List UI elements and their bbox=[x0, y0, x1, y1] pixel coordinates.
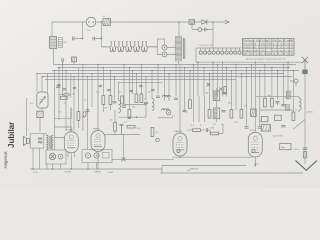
wire v129.4 bbox=[128, 68, 130, 110]
svg-text:1M: 1M bbox=[166, 97, 169, 99]
svg-text:500Ω: 500Ω bbox=[108, 172, 113, 174]
capacitor C1 bbox=[205, 28, 208, 32]
wire top supply line bbox=[52, 21, 226, 23]
wire below transformer bbox=[53, 49, 55, 65]
wire v152 bbox=[151, 71, 153, 99]
wire v82.9 bbox=[82, 65, 84, 132]
wire v42 bbox=[41, 77, 43, 93]
wire sockets to choke bbox=[167, 48, 176, 55]
node Jb bbox=[101, 38, 103, 40]
wire v37 bbox=[36, 74, 38, 93]
wire v132.6 bbox=[132, 71, 134, 95]
IF coil box B2a bbox=[213, 91, 219, 101]
svg-text:EABC80: EABC80 bbox=[175, 130, 184, 133]
resistor R8 bbox=[140, 94, 147, 103]
wire v74 bbox=[73, 77, 75, 132]
wire h94.6 bbox=[58, 94, 71, 96]
resistor R18 bbox=[224, 87, 227, 94]
heater pins 2 bbox=[118, 42, 123, 47]
node Ja bbox=[82, 38, 84, 40]
resistor R24 bbox=[121, 96, 124, 104]
svg-text:Netz: Netz bbox=[281, 146, 285, 149]
node h117a bbox=[129, 116, 131, 118]
pickup mark X bbox=[122, 157, 126, 161]
bus wire 1 bbox=[54, 64, 297, 66]
wire v264.9 bbox=[264, 65, 266, 99]
junction dots bus 4 bbox=[36, 73, 242, 77]
wire v288 bbox=[287, 62, 289, 100]
svg-text:EL95: EL95 bbox=[254, 164, 260, 166]
wire mains left bbox=[51, 22, 53, 36]
wire v158 bbox=[157, 65, 159, 95]
resistor R15 bbox=[268, 95, 274, 107]
junction dots chassis bbox=[32, 159, 124, 170]
wire arrow stem bbox=[304, 158, 306, 164]
wire v124 bbox=[123, 65, 125, 105]
resistor R5 bbox=[104, 96, 112, 110]
svg-text:EBF80: EBF80 bbox=[95, 171, 102, 173]
wire switch row rail bbox=[196, 48, 241, 62]
svg-text:50µF 350V: 50µF 350V bbox=[273, 136, 284, 138]
coil L4 bbox=[299, 97, 301, 112]
resistor R21 bbox=[151, 128, 159, 137]
node T4 bottom bbox=[255, 165, 257, 167]
paper background bbox=[0, 0, 320, 188]
wire v164.4 bbox=[163, 68, 165, 101]
capacitor C18 bbox=[120, 124, 124, 134]
wire v70.8 bbox=[70, 74, 72, 132]
wire can stubs bbox=[216, 88, 218, 122]
capacitor C2 bbox=[62, 58, 63, 64]
node J1 bbox=[178, 21, 180, 23]
wire v255.3 bbox=[254, 62, 256, 132]
svg-text:EBF80: EBF80 bbox=[93, 128, 100, 130]
speaker housing bbox=[30, 134, 44, 148]
capacitor C15 bbox=[93, 37, 94, 41]
fuse Si1 bbox=[103, 16, 111, 26]
wire v198 bbox=[197, 62, 199, 96]
svg-text:Spannungen gegen Chassis gemes: Spannungen gegen Chassis gemessen 20° bbox=[246, 58, 286, 60]
bus wire 6 bbox=[45, 79, 236, 81]
wire v259.8 bbox=[259, 71, 261, 127]
resistor R1 bbox=[189, 20, 195, 25]
heater pins 1 bbox=[110, 42, 115, 47]
bus wire 7 bbox=[118, 81, 162, 83]
resistor R19 bbox=[114, 110, 117, 135]
coil L2 bbox=[119, 101, 121, 113]
capacitor C10 bbox=[245, 127, 249, 128]
svg-text:T P K M L U TA: T P K M L U TA bbox=[198, 44, 213, 47]
wire v141.4 bbox=[140, 65, 142, 95]
svg-text:EL95 170 160 5,4 24 9,5: EL95 170 160 5,4 24 9,5 bbox=[243, 54, 295, 56]
wire v271.9 bbox=[271, 68, 273, 99]
resistor R14 bbox=[264, 98, 267, 107]
capacitor C9 bbox=[183, 110, 187, 111]
resistor R20 bbox=[127, 125, 141, 130]
wire h117.8 left of V3 bbox=[158, 117, 173, 119]
bus wire 2 bbox=[57, 67, 290, 69]
box N3 bbox=[261, 125, 270, 132]
resistor R7 bbox=[135, 94, 138, 103]
lamp La1 bbox=[86, 17, 96, 32]
svg-text:EL95: EL95 bbox=[250, 130, 256, 132]
capacitor C11 bbox=[258, 127, 262, 128]
band filter F1 bbox=[30, 92, 49, 108]
pot box A bbox=[46, 150, 66, 164]
capacitor C3 bbox=[86, 110, 90, 113]
wire v78.4 bbox=[77, 68, 79, 129]
wire v204.5 low bbox=[204, 97, 206, 123]
wire branch lower bbox=[192, 22, 213, 30]
wire h104.5 bbox=[124, 104, 146, 106]
wire v251.4 bbox=[250, 65, 252, 110]
wire v98 bbox=[97, 65, 99, 131]
output transformer Tr2 bbox=[46, 135, 53, 149]
wire h127 bbox=[54, 127, 71, 132]
resistor R10 bbox=[185, 100, 191, 114]
junction dots bus 3 bbox=[54, 70, 294, 71]
svg-text:ECH81: ECH81 bbox=[66, 130, 74, 132]
wire v305 right rail bbox=[304, 74, 306, 158]
wire diagonal to rail bbox=[293, 120, 305, 130]
antenna symbol bbox=[302, 57, 308, 74]
wire v246.5 bbox=[246, 68, 248, 127]
wire v222.5 bbox=[222, 62, 224, 96]
box N1 bbox=[261, 117, 268, 122]
wire v176 bbox=[175, 65, 177, 97]
wire v123.5 low bbox=[123, 135, 125, 160]
wire v193.5 bbox=[193, 65, 195, 97]
socket pin P2 bbox=[162, 52, 167, 57]
wire v193.5 low bbox=[193, 97, 195, 123]
tube V4 EL95 bbox=[248, 132, 262, 165]
junction dots bus 2 bbox=[58, 67, 288, 68]
junction dots bus 1 bbox=[62, 64, 284, 65]
wire v184.5 bbox=[184, 68, 186, 111]
svg-text:170Ω: 170Ω bbox=[33, 172, 38, 174]
wire v62.5 bbox=[62, 65, 64, 97]
heater chain wire bbox=[102, 47, 158, 52]
capacitor C5 bbox=[122, 106, 126, 107]
heater pins 3 bbox=[126, 42, 131, 47]
resistor R11 bbox=[208, 110, 211, 119]
box K1 bbox=[251, 109, 257, 117]
tube V2 EBF80 bbox=[91, 131, 105, 174]
terminal TB1 bbox=[290, 79, 298, 86]
capacitor C4 bbox=[113, 102, 117, 103]
wire v283.4 bbox=[282, 65, 284, 105]
wire antenna left bbox=[26, 98, 28, 136]
wire v190 bbox=[189, 71, 191, 100]
wire chassis bus bbox=[30, 168, 162, 170]
svg-text:ECH81: ECH81 bbox=[65, 171, 73, 173]
choke L1 bbox=[176, 37, 185, 62]
wire drop to coil bbox=[178, 22, 180, 36]
svg-text:6,3V: 6,3V bbox=[87, 30, 92, 32]
wire v199 low bbox=[198, 97, 200, 123]
pot box B bbox=[82, 150, 112, 163]
capacitor C28 bbox=[64, 93, 70, 96]
svg-text:Jubilar: Jubilar bbox=[7, 122, 16, 148]
capacitor C27 bbox=[151, 90, 154, 91]
capacitor C12 bbox=[275, 102, 279, 106]
tick marks rail bbox=[303, 148, 308, 150]
wire v110.4 bbox=[109, 71, 111, 111]
tube V1 ECH81 bbox=[64, 132, 78, 174]
trimmer box bbox=[37, 111, 43, 117]
wire trafo down bbox=[47, 149, 49, 150]
node h117b bbox=[136, 116, 138, 118]
svg-text:0,5M: 0,5M bbox=[210, 128, 215, 130]
coil L3 bbox=[152, 99, 154, 111]
wire v213 bbox=[212, 62, 214, 96]
capacitor C8 bbox=[174, 98, 178, 99]
node J2 bbox=[212, 21, 214, 23]
wire h96.7 bbox=[256, 96, 299, 98]
capacitor C24 bbox=[107, 90, 110, 91]
coil L6 bbox=[162, 109, 170, 111]
wire heater branch a bbox=[74, 22, 83, 39]
capacitor C13 bbox=[281, 105, 285, 106]
socket pin P1 bbox=[162, 45, 167, 50]
lamp La2 bbox=[198, 28, 202, 32]
wire v92 bbox=[91, 74, 93, 108]
resistor R16 bbox=[292, 112, 295, 121]
node T3 bottom bbox=[179, 156, 181, 158]
resistor R12 bbox=[230, 110, 233, 119]
capacitor C23 bbox=[99, 86, 102, 87]
wire long bottom link bbox=[112, 158, 174, 160]
wire v118.6 bbox=[118, 82, 120, 100]
diode D4 bbox=[156, 138, 160, 142]
svg-text:EABC80 75 — 0,5 0,2 1,1: EABC80 75 — 0,5 0,2 1,1 bbox=[243, 49, 295, 52]
wire v236 bbox=[235, 65, 237, 111]
trimmer CT1 bbox=[207, 83, 210, 86]
wire v103.4 bbox=[102, 68, 104, 113]
wire v231.4 bbox=[230, 71, 232, 110]
capacitor C16 bbox=[56, 86, 60, 87]
capacitor C17 bbox=[62, 89, 66, 90]
resistor R4 bbox=[102, 96, 105, 105]
capacitor C29 bbox=[223, 93, 227, 94]
wire h110 bbox=[260, 109, 293, 111]
IF coil box B2b bbox=[213, 108, 219, 119]
bus wire 4 bbox=[37, 73, 284, 75]
wire bus t3 bbox=[172, 156, 253, 158]
transformer Tr1 bbox=[50, 37, 68, 49]
resistor R17 bbox=[304, 152, 307, 159]
wire h117.2 bbox=[119, 105, 146, 118]
wire bus bottom bbox=[160, 172, 303, 174]
ground arrow bbox=[296, 161, 318, 171]
svg-text:ECH81 170 80 1,7 2,6 0,7: ECH81 170 80 1,7 2,6 0,7 bbox=[243, 44, 295, 46]
wire v169 bbox=[168, 74, 170, 102]
node Jc bbox=[101, 21, 103, 23]
capacitor C21 bbox=[57, 84, 60, 85]
svg-text:(235V): (235V) bbox=[307, 111, 314, 113]
wire v54.4 bbox=[53, 71, 55, 151]
wire row T2-T3 bbox=[105, 134, 140, 136]
wire bus mid bbox=[162, 166, 247, 174]
resistor R2 bbox=[61, 96, 68, 104]
mains box bbox=[280, 144, 291, 150]
wire v217.5 bbox=[217, 65, 219, 97]
bus wire 5 bbox=[42, 76, 292, 78]
wire v33 bbox=[32, 148, 34, 169]
wire v87.6 bbox=[87, 77, 89, 150]
capacitor C25 bbox=[130, 91, 133, 92]
wire v180 bbox=[179, 65, 181, 134]
coil L5 bbox=[163, 95, 171, 97]
capacitor C6 bbox=[144, 102, 148, 106]
tube V3 EABC80 bbox=[173, 133, 199, 171]
wire long rail y62 bbox=[196, 61, 302, 63]
arrow line end bbox=[225, 20, 229, 23]
winding W2 bbox=[286, 105, 290, 111]
heater pins 5 bbox=[142, 42, 147, 47]
capacitor C14 bbox=[73, 37, 74, 41]
wire v114.5 bbox=[114, 77, 116, 101]
capacitor C19 bbox=[281, 126, 285, 128]
diode D3 bbox=[219, 88, 222, 91]
resistor R3 bbox=[77, 112, 85, 121]
resistor R22 bbox=[187, 129, 205, 132]
capacitor C26 bbox=[139, 86, 142, 87]
heater pins 4 bbox=[134, 42, 139, 47]
svg-text:Röhre Ua Ug2 Uk Ia S mA: Röhre Ua Ug2 Uk Ia S mA bbox=[243, 39, 294, 42]
wire v66 bbox=[65, 71, 67, 132]
switch contact row bbox=[198, 44, 241, 54]
resistor R13 bbox=[235, 110, 243, 124]
svg-text:Hagenuk: Hagenuk bbox=[3, 150, 8, 168]
wire trafo to tube bbox=[44, 134, 65, 138]
wire v241.4 bbox=[240, 74, 242, 110]
coil tag E1 bbox=[83, 112, 86, 117]
capacitor C20 bbox=[206, 128, 207, 132]
winding W1 bbox=[286, 91, 290, 99]
wire v146 bbox=[145, 77, 147, 101]
svg-text:220V~: 220V~ bbox=[294, 149, 301, 151]
box N2 bbox=[273, 115, 284, 137]
junction dots rail y62 bbox=[197, 62, 288, 63]
resistor R6 bbox=[124, 110, 131, 124]
wire v277.4 bbox=[276, 71, 278, 101]
svg-text:EBF80 170 45 1,2 3,2 0,3: EBF80 170 45 1,2 3,2 0,3 bbox=[243, 47, 295, 49]
wire v204 bbox=[203, 68, 205, 97]
rectifier D1 bbox=[202, 19, 207, 24]
resistor R23 bbox=[210, 128, 219, 135]
switch box S1 bbox=[72, 57, 77, 65]
wire v209.5 bbox=[209, 74, 211, 110]
wire v47.5 bbox=[47, 74, 49, 93]
diode D2 bbox=[167, 110, 171, 114]
loudspeaker LS bbox=[23, 136, 29, 145]
wire v47 bbox=[46, 164, 48, 169]
wire v136.4 bbox=[135, 74, 137, 95]
wire t3 cluster bbox=[208, 124, 223, 134]
wire choke down bbox=[178, 61, 180, 65]
wire v39 speaker bbox=[39, 148, 41, 169]
voltage table bbox=[243, 39, 295, 56]
wire heater branch b bbox=[94, 22, 101, 47]
wire to sockets bbox=[157, 39, 164, 55]
capacitor C30 bbox=[222, 111, 226, 112]
svg-text:EABC80: EABC80 bbox=[190, 168, 199, 171]
capacitor C7 bbox=[156, 96, 160, 97]
wire filter down bbox=[40, 108, 42, 132]
capacitor C22 bbox=[73, 88, 76, 89]
svg-text:1M: 1M bbox=[104, 108, 107, 110]
wire h118.6 bbox=[54, 108, 71, 119]
wire v293.4 bbox=[292, 71, 294, 113]
wire drop to switch bbox=[212, 30, 214, 49]
wire pot stubs bbox=[53, 163, 97, 170]
bus wire 3 bbox=[52, 70, 299, 72]
wire v59 bbox=[58, 68, 60, 121]
wire v226.5 bbox=[226, 68, 228, 97]
